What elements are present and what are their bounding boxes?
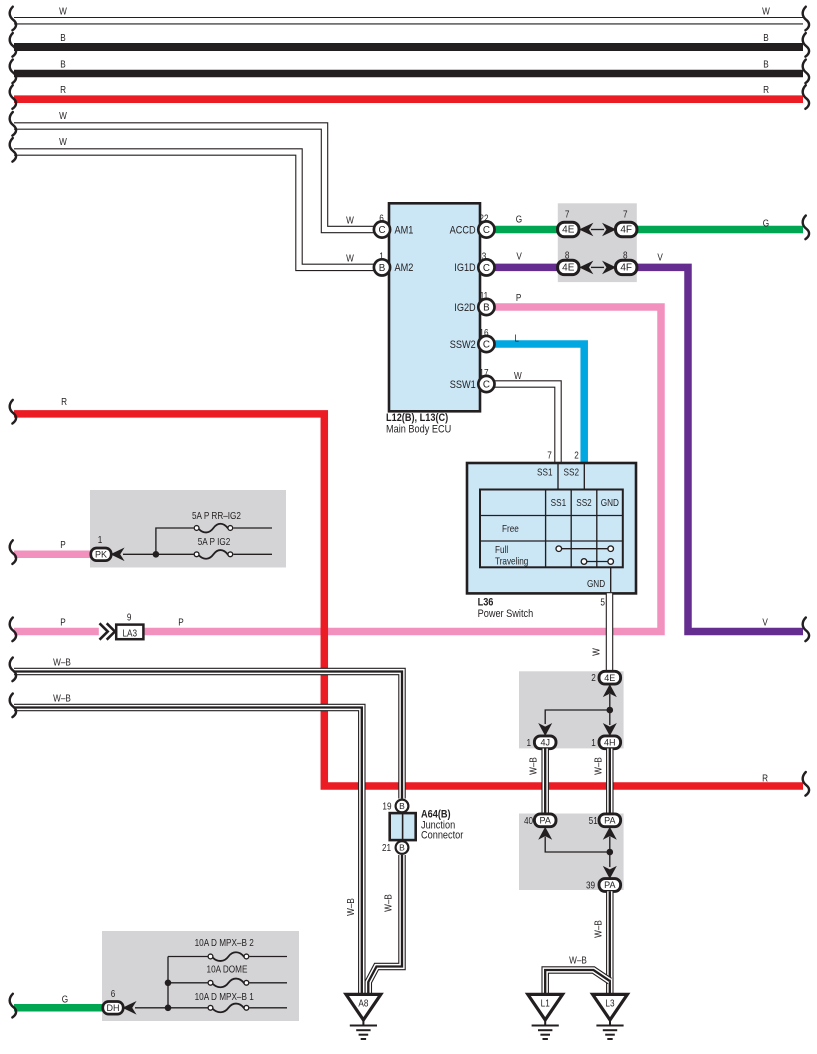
svg-text:ACCD: ACCD <box>450 225 476 237</box>
arrow down into 4H <box>604 724 616 735</box>
svg-text:W–B: W–B <box>569 955 587 966</box>
svg-text:5A P IG2: 5A P IG2 <box>198 536 231 547</box>
label W-B rotated (4H) <box>593 757 604 775</box>
pin 19 B <box>396 800 409 813</box>
SS1 cell divider <box>557 464 559 490</box>
svg-text:SSW2: SSW2 <box>450 339 476 351</box>
svg-text:IG1D: IG1D <box>454 262 475 274</box>
svg-text:10A D MPX–B 1: 10A D MPX–B 1 <box>195 991 254 1002</box>
connector PK <box>91 548 111 561</box>
fuse 10A D MPX-B 2 <box>168 956 208 958</box>
break left wire W-AM2 <box>10 138 16 162</box>
connector LA3 <box>116 625 143 640</box>
svg-text:V: V <box>516 251 522 262</box>
svg-text:W–B: W–B <box>593 757 604 775</box>
arrow into 4E <box>580 224 592 235</box>
label W-B rotated (right wire) <box>383 894 394 912</box>
wire W-B 4J to PA40 <box>541 749 549 815</box>
svg-text:G: G <box>62 994 68 1005</box>
svg-text:LA3: LA3 <box>123 628 138 639</box>
wire P to PK <box>14 551 91 559</box>
svg-text:4H: 4H <box>604 738 616 748</box>
break right wire R middle <box>803 772 809 796</box>
svg-text:2: 2 <box>574 450 579 461</box>
svg-text:22: 22 <box>479 213 488 224</box>
svg-text:P: P <box>60 617 65 628</box>
line 4E to 4H <box>609 694 611 725</box>
svg-text:V: V <box>657 252 663 263</box>
svg-text:L1: L1 <box>541 998 550 1009</box>
ground A8 <box>346 994 381 1020</box>
junction block box 4E/4J/4H <box>519 671 624 748</box>
line PK to junction <box>123 553 196 555</box>
wire P IG2D to LA3 <box>143 307 661 632</box>
svg-text:W–B: W–B <box>345 898 356 916</box>
joint line V row <box>591 266 604 268</box>
label W-B rotated (4J) <box>528 757 539 775</box>
junction dot 5A <box>153 551 160 558</box>
contact SS2-GND <box>584 561 611 563</box>
svg-text:1: 1 <box>527 737 532 748</box>
svg-text:1: 1 <box>379 251 384 262</box>
arrow into PK <box>111 549 123 560</box>
switch state table <box>480 490 623 568</box>
fuse 10A DOME <box>168 982 208 984</box>
svg-text:1: 1 <box>98 534 103 545</box>
wire W-B upper (through A64) <box>14 672 402 799</box>
arrow into 4F V row <box>603 262 615 273</box>
svg-text:8: 8 <box>565 250 570 261</box>
label W-B rotated (left wire) <box>345 898 356 916</box>
svg-text:W–B: W–B <box>593 920 604 938</box>
svg-text:11: 11 <box>480 290 489 301</box>
svg-text:4E: 4E <box>562 263 575 274</box>
pin 17 SSW1 <box>478 376 494 392</box>
break right wire V <box>803 618 809 642</box>
connector 4E (V row) <box>558 260 579 274</box>
svg-text:DH: DH <box>107 1003 120 1013</box>
svg-text:G: G <box>763 218 769 229</box>
svg-text:4E: 4E <box>562 225 575 236</box>
ground L1 <box>528 994 563 1020</box>
branch up <box>156 528 194 554</box>
svg-text:6: 6 <box>379 213 384 224</box>
svg-text:SS2: SS2 <box>564 467 579 478</box>
break left wire R middle <box>10 400 16 424</box>
wire G 4F to right <box>635 226 803 234</box>
svg-text:Traveling: Traveling <box>495 556 528 567</box>
svg-text:6: 6 <box>111 988 116 999</box>
junction dot <box>607 707 614 714</box>
svg-text:R: R <box>61 396 67 407</box>
svg-text:PA: PA <box>540 816 551 826</box>
svg-text:SSW1: SSW1 <box>450 379 476 391</box>
break left wire W-AM1 <box>10 112 16 136</box>
svg-text:B: B <box>763 32 768 43</box>
power switch L36 box <box>467 463 636 593</box>
arrow up into 4E <box>604 685 616 696</box>
connector 4J <box>534 736 556 749</box>
svg-text:C: C <box>483 263 490 274</box>
svg-text:C: C <box>483 225 490 236</box>
chevrons LA3 backing <box>99 624 117 638</box>
junction dot PA <box>607 849 614 856</box>
line DH to junction <box>135 1007 208 1009</box>
svg-text:C: C <box>483 340 490 351</box>
svg-text:W: W <box>59 110 67 121</box>
svg-text:W–B: W–B <box>53 693 71 704</box>
svg-text:Connector: Connector <box>421 830 464 842</box>
wire B (top 2) <box>14 43 803 51</box>
svg-text:SS1: SS1 <box>537 467 552 478</box>
svg-text:W: W <box>346 215 354 226</box>
wire W-B PA39 to L3 <box>606 891 614 994</box>
svg-text:W: W <box>59 6 67 17</box>
break right wire G <box>803 216 809 240</box>
svg-text:B: B <box>483 303 490 314</box>
branch line PA40 to junction <box>545 837 610 852</box>
svg-text:39: 39 <box>586 880 595 891</box>
break right wire B <box>803 33 809 57</box>
wire W to AM2 <box>14 152 374 267</box>
wire V IG1D to 4E <box>492 264 559 272</box>
svg-text:W–B: W–B <box>528 757 539 775</box>
pin 1 AM2 <box>374 259 390 275</box>
svg-text:8: 8 <box>623 250 628 261</box>
svg-text:P: P <box>516 292 521 303</box>
arrow down into PA39 <box>604 867 616 878</box>
wire W-B lower (to A8) <box>14 708 362 995</box>
GND exit line <box>610 567 612 592</box>
connector PA 51 <box>599 814 621 827</box>
wire W-B 4H to PA51 <box>606 749 614 815</box>
break left wire B <box>10 33 16 57</box>
svg-text:Free: Free <box>502 523 519 534</box>
pin 3 IG1D <box>478 259 494 275</box>
junction vertical 10A <box>167 957 169 1008</box>
break left wire B2 <box>10 60 16 84</box>
svg-text:B: B <box>379 263 386 274</box>
svg-text:L36: L36 <box>478 597 494 609</box>
wire R (top 4) <box>14 95 803 103</box>
ground L3 <box>593 994 628 1020</box>
fuse 5A P RR-IG2 <box>194 526 199 531</box>
svg-text:7: 7 <box>623 209 628 220</box>
contact SS1-GND <box>559 548 611 550</box>
svg-text:7: 7 <box>547 450 552 461</box>
svg-text:PK: PK <box>95 550 107 560</box>
wire W (top 1) <box>14 17 803 25</box>
fuse 10A D MPX-B 1 <box>208 1005 213 1010</box>
svg-text:B: B <box>763 59 768 70</box>
svg-text:GND: GND <box>601 497 620 508</box>
wire W to AM1 <box>14 126 374 230</box>
wire P break to LA3 <box>14 628 118 636</box>
svg-text:4F: 4F <box>620 263 632 274</box>
svg-text:C: C <box>378 225 385 236</box>
wire G ACCD to 4E <box>492 226 559 234</box>
arrow down into 4J <box>539 724 551 735</box>
pin 11 IG2D <box>478 299 494 315</box>
connector PA 39 <box>599 879 621 892</box>
svg-text:GND: GND <box>587 578 606 589</box>
svg-text:P: P <box>60 539 65 550</box>
svg-text:4E: 4E <box>604 673 615 683</box>
branch line to 4J <box>545 710 610 724</box>
svg-text:17: 17 <box>479 367 488 378</box>
svg-text:W: W <box>346 253 354 264</box>
svg-text:IG2D: IG2D <box>454 302 475 314</box>
relay block box upper (fuses 5A) <box>90 490 286 568</box>
svg-text:3: 3 <box>482 251 487 262</box>
svg-text:B: B <box>399 843 405 853</box>
connector PA 40 <box>534 814 556 827</box>
svg-text:9: 9 <box>127 612 132 623</box>
connector 4E (G row) <box>558 222 579 236</box>
svg-text:L: L <box>514 333 519 344</box>
svg-text:R: R <box>60 84 66 95</box>
svg-text:AM1: AM1 <box>395 225 414 237</box>
pin 6 AM1 <box>374 221 390 237</box>
svg-text:W: W <box>762 6 770 17</box>
svg-text:16: 16 <box>479 327 488 338</box>
svg-text:10A D MPX–B 2: 10A D MPX–B 2 <box>195 937 254 948</box>
svg-text:A8: A8 <box>358 998 368 1009</box>
svg-text:19: 19 <box>382 801 391 812</box>
wire B (top 3) <box>14 70 803 78</box>
joint line G row <box>591 229 604 231</box>
svg-text:51: 51 <box>589 815 598 826</box>
svg-text:Full: Full <box>495 544 508 555</box>
pin 21 B <box>396 841 409 854</box>
wire G to DH <box>14 1004 103 1012</box>
arrow up into PA40 <box>539 828 551 839</box>
SS2 cell divider <box>583 464 585 490</box>
line PA51 down <box>609 837 611 867</box>
svg-text:R: R <box>763 84 769 95</box>
arrow up into PA51 <box>604 828 616 839</box>
Main Body ECU box <box>389 203 480 411</box>
arrow into 4F <box>603 224 615 235</box>
svg-text:W–B: W–B <box>53 657 71 668</box>
wire W-B L1 link <box>545 970 610 995</box>
connector 4F (G row) <box>616 222 637 236</box>
svg-text:W: W <box>59 136 67 147</box>
junction block box PA <box>519 814 624 891</box>
svg-text:AM2: AM2 <box>395 262 414 274</box>
connector DH <box>103 1002 123 1015</box>
arrow into 4E V row <box>580 262 592 273</box>
svg-text:10A DOME: 10A DOME <box>207 964 248 975</box>
svg-text:B: B <box>399 801 405 811</box>
wire L SSW2 to power switch <box>492 344 584 463</box>
svg-text:G: G <box>516 214 522 225</box>
svg-text:5A P RR–IG2: 5A P RR–IG2 <box>192 510 241 521</box>
break right wire R <box>803 85 809 109</box>
wire W SSW1 to power switch <box>492 384 558 463</box>
svg-text:B: B <box>60 59 65 70</box>
relay block box lower (fuses 10A) <box>102 931 299 1021</box>
label W-B rotated (PA39) <box>593 920 604 938</box>
svg-text:L12(B), L13(C): L12(B), L13(C) <box>386 412 448 424</box>
svg-text:P: P <box>178 617 183 628</box>
connector 4F (V row) <box>616 260 637 274</box>
svg-text:W: W <box>514 370 522 381</box>
break right wire W <box>803 7 809 31</box>
break right wire B2 <box>803 60 809 84</box>
fuse 5A P IG2 <box>194 552 199 557</box>
svg-text:1: 1 <box>591 737 596 748</box>
svg-text:2: 2 <box>591 672 596 683</box>
svg-text:PA: PA <box>604 816 615 826</box>
break left wire R <box>10 85 16 109</box>
svg-text:7: 7 <box>565 209 570 220</box>
connector 4H <box>599 736 621 749</box>
svg-text:4F: 4F <box>620 225 632 236</box>
pin 22 ACCD <box>478 221 494 237</box>
svg-text:Power Switch: Power Switch <box>478 608 534 620</box>
connector 4E (block) <box>599 671 621 684</box>
wire W-B A64 to A8 <box>368 855 402 995</box>
svg-text:W–B: W–B <box>383 894 394 912</box>
wire W GND pin 5 <box>606 593 614 672</box>
junction block box 4E/4F <box>558 203 637 282</box>
svg-text:Main Body ECU: Main Body ECU <box>386 424 451 436</box>
svg-text:SS2: SS2 <box>576 497 591 508</box>
svg-text:PA: PA <box>604 880 615 890</box>
svg-text:L3: L3 <box>605 998 614 1009</box>
svg-text:B: B <box>60 32 65 43</box>
svg-text:4J: 4J <box>540 738 550 748</box>
wire R middle <box>14 414 803 786</box>
svg-text:V: V <box>762 617 768 628</box>
chevrons LA3 <box>100 623 115 639</box>
svg-text:40: 40 <box>524 815 533 826</box>
svg-text:R: R <box>762 773 768 784</box>
svg-text:SS1: SS1 <box>551 497 566 508</box>
wire V 4F right and down <box>637 267 803 631</box>
break left wire W <box>10 7 16 31</box>
svg-text:C: C <box>483 380 490 391</box>
svg-text:5: 5 <box>600 597 605 608</box>
svg-text:W: W <box>591 648 602 656</box>
arrow into DH <box>123 1002 135 1013</box>
label W rotated <box>591 648 602 656</box>
junction connector A64(B) box <box>390 813 416 840</box>
svg-text:21: 21 <box>382 842 391 853</box>
pin 16 SSW2 <box>478 336 494 352</box>
